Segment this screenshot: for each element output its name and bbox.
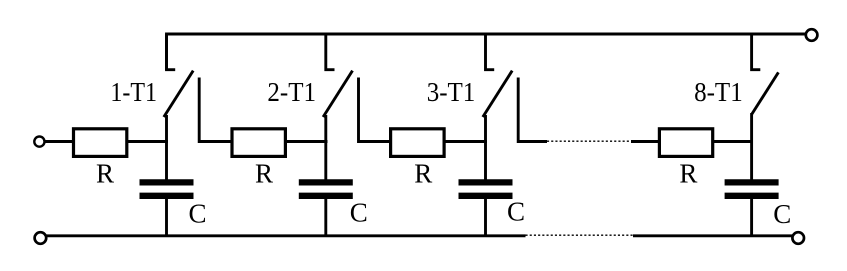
svg-text:R: R [255,159,273,189]
switch 1-T1 right contact to next stage [199,78,233,142]
node 8 vertical wire [750,113,753,180]
bottom bus wire dotted continuation [526,234,634,236]
wire R8 to node 8 [713,140,753,143]
svg-text:C: C [773,199,791,229]
capacitor C2 top plate [299,179,353,185]
svg-text:8-T1: 8-T1 [694,77,743,107]
wire R1 to node 1 [127,140,168,143]
svg-text:C: C [188,198,206,228]
resistor R3 [391,129,445,157]
svg-text:3-T1: 3-T1 [427,77,476,107]
svg-text:2-T1: 2-T1 [267,77,316,107]
resistor R8 [659,129,712,157]
resistor R2 [232,129,285,157]
wire C2 to bottom bus [324,199,327,237]
input terminal top-left [34,137,44,147]
node 1 vertical wire [165,115,168,180]
wire C1 to bottom bus [165,199,168,237]
output terminal top-right [806,29,818,41]
capacitor C3 bottom plate [459,193,513,199]
node 3 vertical wire [484,115,487,180]
capacitor C2 bottom plate [299,193,353,199]
capacitor C8 top plate [725,179,779,185]
switch 2-T1 blade [323,71,352,117]
capacitor C8 bottom plate [725,193,779,199]
switch 8-T1 blade [752,72,779,114]
svg-text:R: R [414,159,432,189]
switch 3-T1 blade [483,71,512,117]
svg-text:R: R [96,159,114,189]
wire C3 to bottom bus [484,199,487,237]
switch 8-T1 top contact (drop from bus with tick) [752,34,761,70]
resistor R1 [74,129,127,157]
svg-text:C: C [350,197,368,227]
ground terminal bottom-left [35,232,47,244]
node 2 vertical wire [324,115,327,180]
capacitor C3 top plate [459,179,513,185]
switch 1-T1 blade [164,71,193,117]
wire C8 to bottom bus [750,199,753,237]
wire R3 to node 3 [444,140,487,143]
wire continuation to R8 [631,140,661,143]
svg-text:R: R [679,159,697,189]
capacitor C1 top plate [140,179,194,185]
capacitor C1 bottom plate [140,193,194,199]
wire input terminal to R1 [44,140,75,143]
switch 3-T1 right contact to continuation [518,78,547,142]
dotted continuation wire between stage 3 and stage 8 [547,140,632,142]
wire R2 to node 2 [285,140,327,143]
bottom bus wire left solid segment [46,234,525,237]
svg-text:C: C [507,196,525,226]
ground terminal bottom-right [792,232,804,244]
bottom bus wire right solid segment [633,234,792,237]
switch 1-T1 top contact (drop from bus with tick) [167,34,176,70]
top bus wire [167,34,807,70]
switch 2-T1 top contact (drop from bus with tick) [326,34,335,70]
switch 2-T1 right contact to next stage [359,78,393,142]
svg-text:1-T1: 1-T1 [110,77,157,107]
switch 3-T1 top contact (drop from bus with tick) [486,34,495,70]
